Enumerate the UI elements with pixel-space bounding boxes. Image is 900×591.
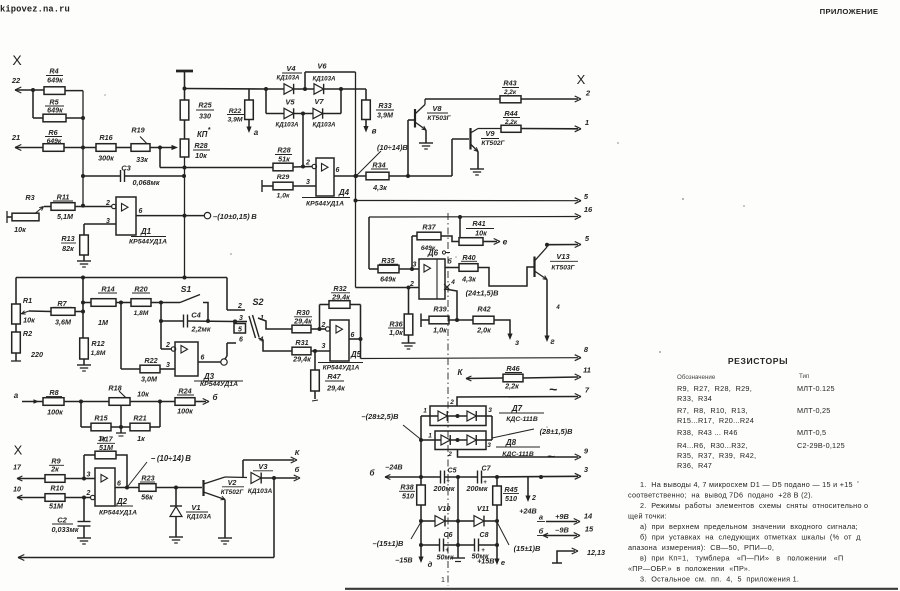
resistor R45 bbox=[493, 477, 519, 505]
wire R14 node down to R22 bbox=[120, 303, 122, 370]
wire -24В rail arrow 3 bbox=[385, 465, 589, 479]
svg-text:510: 510 bbox=[402, 492, 414, 501]
resistor R2 bbox=[11, 324, 43, 361]
wire R7/R14 junction bus bbox=[81, 278, 85, 339]
diode assembly D8 КДС-111В bbox=[419, 416, 540, 458]
svg-text:2,2к: 2,2к bbox=[504, 382, 519, 391]
wire R15/R21 mid to R18 + ground bbox=[116, 406, 126, 437]
svg-text:R9, R27, R28, R29,: R9, R27, R28, R29, bbox=[677, 384, 752, 393]
svg-text:КР544УД1А: КР544УД1А bbox=[99, 510, 137, 517]
svg-text:2,2мк: 2,2мк bbox=[191, 325, 211, 334]
svg-text:КР544УД1А: КР544УД1А bbox=[200, 381, 238, 388]
ground under R36 bbox=[402, 335, 416, 349]
resistor R31 bbox=[292, 338, 330, 364]
resistor R34 bbox=[366, 161, 452, 193]
svg-text:649к: 649к bbox=[47, 76, 63, 85]
svg-text:КР544УД1А: КР544УД1А bbox=[129, 239, 167, 246]
svg-text:R3: R3 bbox=[25, 193, 34, 202]
net line arrow 5 bbox=[356, 192, 589, 204]
resistor R13 bbox=[61, 234, 88, 255]
svg-text:е: е bbox=[501, 558, 505, 567]
svg-text:(10÷14)В: (10÷14)В bbox=[377, 143, 408, 152]
svg-text:3: 3 bbox=[584, 465, 589, 474]
svg-text:29,4к: 29,4к bbox=[293, 317, 312, 326]
diode V1 КД103А bbox=[170, 488, 212, 538]
svg-text:Д3: Д3 bbox=[203, 372, 215, 381]
svg-text:а) при верхнем предельном: а) при верхнем предельном значении входн… bbox=[640, 522, 858, 531]
wire D2 output bbox=[115, 486, 139, 490]
svg-text:3,9М: 3,9М bbox=[377, 111, 394, 120]
svg-text:Д1: Д1 bbox=[140, 227, 152, 236]
svg-text:R12: R12 bbox=[91, 339, 104, 348]
label -(15±1)В bbox=[373, 522, 421, 548]
svg-text:R44: R44 bbox=[504, 109, 517, 118]
wire -15В output bbox=[418, 519, 423, 563]
svg-text:«ПР—ОБР.» в положении «ПР».: «ПР—ОБР.» в положении «ПР». bbox=[628, 564, 750, 573]
label +15В е bbox=[477, 557, 505, 568]
capacitor C2 bbox=[52, 498, 91, 539]
svg-text:КТ502Г: КТ502Г bbox=[221, 489, 245, 496]
svg-text:МЛТ-0.125: МЛТ-0.125 bbox=[797, 384, 835, 393]
svg-text:S2: S2 bbox=[252, 297, 263, 307]
svg-text:C2: C2 bbox=[57, 516, 67, 525]
svg-text:V7: V7 bbox=[314, 97, 324, 106]
power rail symbol bbox=[176, 71, 193, 100]
op-amp D5 bbox=[321, 320, 361, 361]
svg-text:R31: R31 bbox=[295, 338, 308, 347]
potentiometer R1 bbox=[12, 278, 35, 325]
svg-text:ПРИЛОЖЕНИЕ: ПРИЛОЖЕНИЕ bbox=[820, 7, 879, 16]
svg-text:R38, R43 ... R46: R38, R43 ... R46 bbox=[677, 428, 738, 437]
capacitor C6 bbox=[421, 532, 458, 562]
resistor R38 bbox=[399, 483, 425, 506]
svg-text:10к: 10к bbox=[137, 390, 149, 399]
svg-text:щей точки:: щей точки: bbox=[628, 512, 667, 521]
resistor R32 bbox=[320, 284, 363, 359]
svg-text:R25: R25 bbox=[198, 101, 212, 110]
svg-text:50мк: 50мк bbox=[437, 553, 454, 562]
svg-text:КД103А: КД103А bbox=[187, 514, 212, 521]
svg-text:+9В: +9В bbox=[555, 512, 569, 521]
svg-text:МЛТ-0,5: МЛТ-0,5 bbox=[797, 428, 826, 437]
resistor R22 bbox=[227, 89, 253, 124]
svg-text:R6: R6 bbox=[48, 128, 58, 137]
svg-text:6: 6 bbox=[139, 208, 143, 215]
wire diode mid to D4 pin2 bbox=[302, 114, 304, 167]
resistor R21 bbox=[130, 402, 160, 444]
wire rail to R28(51k) bbox=[160, 148, 273, 168]
resistor R17 bbox=[84, 435, 127, 488]
svg-text:R28: R28 bbox=[194, 141, 207, 150]
trimmer R18 bbox=[108, 384, 175, 406]
svg-text:X: X bbox=[577, 72, 586, 87]
svg-text:51к: 51к bbox=[278, 155, 290, 164]
resistor R10 bbox=[45, 484, 91, 511]
label D3 КР544УД1А bbox=[194, 372, 243, 388]
resistor R40 bbox=[445, 253, 534, 286]
svg-text:V10: V10 bbox=[438, 504, 451, 513]
page number bbox=[441, 577, 445, 584]
svg-text:Тип: Тип bbox=[799, 373, 809, 380]
svg-text:б) при уставках на следующ: б) при уставках на следующих отметках шк… bbox=[640, 533, 861, 542]
wire right rectifier column bbox=[495, 505, 499, 562]
svg-text:S1: S1 bbox=[181, 284, 192, 294]
svg-text:100к: 100к bbox=[177, 407, 193, 416]
svg-text:~: ~ bbox=[547, 448, 555, 464]
diode assembly D7 КДС-111В bbox=[421, 399, 544, 426]
svg-text:V9: V9 bbox=[485, 129, 495, 138]
svg-text:510: 510 bbox=[505, 494, 517, 503]
transistor V2 КТ502Г bbox=[204, 477, 248, 538]
transistor V8 КТ503Г bbox=[408, 99, 452, 176]
terminal arrow 17 bbox=[13, 465, 45, 482]
resistor R4 bbox=[44, 67, 65, 95]
wire V3 node down bbox=[273, 478, 275, 558]
resistor R24 bbox=[175, 387, 219, 416]
svg-text:X: X bbox=[14, 443, 23, 458]
switch S1 bbox=[161, 284, 208, 321]
terminal arrow 1 bbox=[521, 118, 589, 132]
svg-text:R21: R21 bbox=[133, 414, 146, 423]
wire R19 wiper arrow to R28 bbox=[150, 145, 178, 150]
svg-text:в) при Кп=1, тумблера «П: в) при Кп=1, тумблера «П—ПИ» в положении… bbox=[640, 554, 843, 563]
svg-text:–(10±0,15) В: –(10±0,15) В bbox=[213, 212, 257, 221]
wire R6-R16 bbox=[64, 147, 96, 149]
svg-text:R45: R45 bbox=[504, 485, 518, 494]
svg-text:R37: R37 bbox=[422, 223, 436, 232]
svg-text:КР544УД1А: КР544УД1А bbox=[306, 201, 344, 208]
svg-text:–(15±1)В: –(15±1)В bbox=[373, 539, 404, 548]
trimmer R41 bbox=[459, 217, 494, 245]
svg-text:0,068мк: 0,068мк bbox=[133, 178, 160, 187]
svg-text:Д6: Д6 bbox=[427, 249, 439, 258]
diode V6 bbox=[312, 62, 343, 95]
svg-text:–9В: –9В bbox=[555, 526, 569, 535]
screen boundary dash-dot line bbox=[447, 213, 449, 586]
svg-text:4,3к: 4,3к bbox=[461, 275, 476, 284]
resistor R3 bbox=[7, 193, 44, 234]
ground under R12 bbox=[77, 365, 91, 371]
svg-text:1: 1 bbox=[441, 577, 445, 584]
capacitor C5 bbox=[433, 468, 457, 494]
svg-text:1: 1 bbox=[585, 118, 589, 127]
svg-text:КТ503Г: КТ503Г bbox=[551, 265, 575, 272]
arrow -9В 15 bbox=[537, 525, 594, 539]
resistor R35 bbox=[369, 256, 419, 284]
svg-text:V1: V1 bbox=[191, 503, 200, 512]
svg-text:2,2к: 2,2к bbox=[503, 89, 517, 96]
wire left bus vertical bbox=[65, 91, 85, 208]
svg-text:R14: R14 bbox=[101, 285, 114, 294]
main lower rail bbox=[16, 276, 227, 280]
terminal group X (top right) bbox=[577, 72, 586, 87]
svg-text:2: 2 bbox=[585, 89, 591, 98]
wire D6 pin2 rail bbox=[356, 286, 420, 290]
svg-text:330: 330 bbox=[199, 112, 211, 121]
svg-text:29,4к: 29,4к bbox=[331, 293, 350, 302]
svg-text:R10: R10 bbox=[50, 484, 63, 493]
svg-text:33к: 33к bbox=[136, 155, 148, 164]
arrow a below R22 bbox=[246, 120, 258, 138]
resistor R39 bbox=[421, 305, 473, 335]
label D1 КР544УД1А bbox=[129, 227, 167, 246]
svg-text:29,4к: 29,4к bbox=[326, 384, 345, 393]
ground V2 emitter bbox=[218, 538, 232, 544]
svg-text:1: 1 bbox=[428, 433, 432, 440]
svg-text:15: 15 bbox=[585, 525, 594, 534]
svg-text:б: б bbox=[370, 469, 376, 478]
svg-text:КД103А: КД103А bbox=[312, 76, 336, 83]
svg-text:Обозначение: Обозначение bbox=[677, 374, 716, 381]
svg-text:–15В: –15В bbox=[395, 556, 412, 565]
svg-text:9: 9 bbox=[584, 447, 589, 456]
svg-text:17: 17 bbox=[13, 465, 22, 472]
svg-text:200мк: 200мк bbox=[466, 484, 488, 493]
svg-text:–(28±2,5)В: –(28±2,5)В bbox=[362, 412, 400, 421]
svg-text:0,033мк: 0,033мк bbox=[52, 525, 79, 534]
svg-text:R22: R22 bbox=[229, 108, 242, 115]
wire diode node vertical bbox=[265, 89, 267, 114]
label D4 КР544УД1А bbox=[302, 188, 350, 208]
resistor R11 bbox=[44, 193, 112, 222]
wire top rail to diode node bbox=[185, 87, 269, 91]
notes text block bbox=[628, 480, 868, 584]
svg-text:22: 22 bbox=[11, 76, 21, 85]
svg-text:2: 2 bbox=[447, 451, 452, 458]
output terminal -(10±0,15)В bbox=[204, 212, 257, 221]
svg-text:5: 5 bbox=[584, 192, 589, 201]
svg-text:R46: R46 bbox=[506, 364, 520, 373]
wire D6 pin4 down bbox=[445, 289, 459, 322]
resistor R6 bbox=[43, 128, 64, 151]
svg-text:б: б bbox=[295, 465, 300, 474]
svg-text:649к: 649к bbox=[380, 275, 396, 284]
wire D4 output bbox=[334, 174, 366, 178]
net line arrow 8 bbox=[361, 345, 589, 361]
label C3 bbox=[121, 164, 131, 173]
ground under R13 bbox=[77, 255, 91, 267]
svg-text:б: б bbox=[213, 393, 219, 402]
svg-text:R7: R7 bbox=[57, 299, 67, 308]
resistor R9 bbox=[45, 457, 86, 483]
svg-text:R7, R8, R10, R13,: R7, R8, R10, R13, bbox=[677, 406, 748, 415]
resistor R20 bbox=[131, 285, 163, 318]
svg-text:4: 4 bbox=[450, 279, 455, 286]
label D5 КР544УД1А bbox=[318, 350, 363, 372]
svg-text:6: 6 bbox=[351, 332, 355, 339]
svg-text:Д7: Д7 bbox=[511, 404, 523, 413]
diode V5 bbox=[266, 98, 313, 129]
header ПРИЛОЖЕНИЕ bbox=[820, 7, 879, 16]
svg-text:R15: R15 bbox=[94, 414, 108, 423]
trimmer R19 bbox=[131, 126, 150, 165]
label -15В д bbox=[395, 556, 432, 570]
svg-text:29,4к: 29,4к bbox=[292, 355, 311, 364]
wire R28 bottom vertical bus bbox=[183, 157, 187, 280]
svg-text:2: 2 bbox=[531, 495, 536, 502]
resistor R44 bbox=[501, 109, 521, 132]
capacitor C4 bbox=[159, 303, 237, 350]
svg-text:1,8М: 1,8М bbox=[134, 310, 149, 317]
scan bottom edge line bbox=[345, 588, 898, 590]
transistor V9 КТ502Г bbox=[452, 128, 506, 176]
svg-text:2: 2 bbox=[105, 200, 110, 207]
svg-text:100к: 100к bbox=[47, 408, 63, 417]
svg-text:+24В: +24В bbox=[519, 507, 536, 516]
svg-text:R38: R38 bbox=[400, 483, 413, 492]
resistor R23 bbox=[139, 474, 202, 502]
svg-text:а: а bbox=[539, 513, 543, 522]
svg-text:1. На выводы 4, 7 микросхем D: 1. На выводы 4, 7 микросхем D1 — D5 пода… bbox=[640, 480, 853, 489]
svg-text:КД103А: КД103А bbox=[312, 122, 336, 129]
svg-text:в: в bbox=[372, 127, 377, 136]
resistor R43 bbox=[425, 79, 521, 103]
pin label 4 bbox=[555, 305, 560, 311]
arrow в below R33 bbox=[363, 120, 376, 136]
svg-text:апазона измерения): СВ—50,: апазона измерения): СВ—50, РПИ—0, bbox=[628, 543, 774, 552]
svg-text:V8: V8 bbox=[432, 104, 442, 113]
wire 22-R5 bbox=[31, 88, 35, 118]
svg-text:КР544УД1А: КР544УД1А bbox=[323, 365, 360, 372]
svg-text:г: г bbox=[550, 337, 555, 346]
svg-text:1: 1 bbox=[423, 408, 427, 415]
svg-text:а: а bbox=[254, 128, 259, 137]
label КП bbox=[197, 127, 211, 139]
svg-text:2: 2 bbox=[165, 342, 170, 349]
svg-text:5,1М: 5,1М bbox=[57, 212, 74, 221]
svg-text:1,8М: 1,8М bbox=[91, 350, 106, 357]
svg-text:РЕЗИСТОРЫ: РЕЗИСТОРЫ bbox=[728, 356, 788, 366]
net line arrow 9 (~) bbox=[447, 447, 589, 465]
capacitor C8 bbox=[458, 532, 497, 561]
label D6 bbox=[427, 249, 450, 258]
svg-text:*: * bbox=[208, 127, 211, 134]
svg-text:82к: 82к bbox=[62, 244, 74, 253]
label -(10÷14)В leader bbox=[127, 454, 191, 488]
svg-text:2. Режимы работы элементов: 2. Режимы работы элементов схемы сняты о… bbox=[640, 501, 868, 510]
svg-text:2: 2 bbox=[449, 399, 454, 406]
transistor V13 КТ503Г bbox=[535, 245, 579, 338]
svg-text:R40: R40 bbox=[462, 253, 475, 262]
svg-text:2: 2 bbox=[321, 322, 326, 329]
svg-text:10к: 10к bbox=[14, 225, 26, 234]
svg-text:8: 8 bbox=[584, 345, 589, 354]
common terminal arrow 12,13 bbox=[552, 548, 605, 563]
svg-text:10к: 10к bbox=[195, 151, 207, 160]
svg-text:12,13: 12,13 bbox=[587, 548, 605, 557]
svg-text:R22: R22 bbox=[144, 356, 157, 365]
svg-text:R35, R37, R39, R42,: R35, R37, R39, R42, bbox=[677, 451, 756, 460]
svg-text:V6: V6 bbox=[317, 62, 327, 71]
svg-text:R29: R29 bbox=[277, 174, 290, 181]
svg-text:2: 2 bbox=[237, 303, 242, 310]
diode V3 КД103А bbox=[248, 462, 300, 495]
resistor R8 bbox=[14, 388, 109, 417]
svg-text:X: X bbox=[12, 52, 22, 68]
resistor R16 bbox=[96, 133, 116, 163]
svg-text:а: а bbox=[14, 391, 19, 400]
svg-text:3: 3 bbox=[87, 472, 91, 479]
diode V7 bbox=[312, 97, 341, 129]
svg-text:R19: R19 bbox=[131, 126, 144, 135]
wire D1 output bbox=[136, 215, 204, 217]
svg-text:R36, R47: R36, R47 bbox=[677, 461, 712, 470]
svg-text:R23: R23 bbox=[141, 474, 154, 483]
op-amp D1 bbox=[105, 197, 143, 235]
svg-text:1к: 1к bbox=[137, 434, 145, 443]
svg-text:V13: V13 bbox=[556, 252, 570, 261]
svg-text:51М: 51М bbox=[99, 443, 114, 452]
resistor R28 51к bbox=[273, 146, 313, 171]
svg-text:Д2: Д2 bbox=[116, 497, 128, 506]
svg-text:–24В: –24В bbox=[385, 463, 402, 472]
op-amp D2 bbox=[84, 468, 121, 506]
svg-text:Д8: Д8 bbox=[505, 438, 517, 447]
arrow +9В 14 bbox=[537, 512, 593, 525]
svg-text:56к: 56к bbox=[141, 493, 153, 502]
svg-text:5: 5 bbox=[585, 234, 590, 243]
resistor R7 bbox=[29, 299, 83, 327]
arrow +24В tap bbox=[519, 477, 536, 516]
svg-text:КТ503Г: КТ503Г bbox=[427, 115, 451, 122]
svg-text:6: 6 bbox=[117, 481, 121, 488]
svg-text:10: 10 bbox=[13, 487, 21, 494]
svg-text:1М: 1М bbox=[98, 318, 109, 327]
svg-text:21: 21 bbox=[11, 133, 20, 142]
svg-text:R20: R20 bbox=[134, 285, 147, 294]
wire R16-R19 bbox=[116, 147, 131, 149]
ground V9 emitter bbox=[470, 169, 484, 175]
svg-text:V11: V11 bbox=[477, 504, 489, 513]
svg-text:11: 11 bbox=[583, 366, 591, 375]
svg-text:300к: 300к bbox=[98, 154, 114, 163]
arrow з after R42 bbox=[507, 334, 519, 348]
wire left rectifier column bbox=[420, 416, 422, 545]
terminal group X (bottom left) bbox=[14, 443, 23, 458]
terminal arrow 10 bbox=[13, 487, 45, 501]
capacitor C7 bbox=[466, 466, 492, 494]
resistor R46 bbox=[458, 364, 591, 391]
op-amp D4 bbox=[305, 158, 340, 196]
op-amp D6 bbox=[409, 258, 455, 300]
diode V4 bbox=[266, 64, 314, 94]
svg-text:R11: R11 bbox=[57, 193, 70, 202]
svg-text:(24±1,5)В: (24±1,5)В bbox=[466, 289, 499, 298]
svg-text:3,9М: 3,9М bbox=[227, 117, 242, 124]
svg-text:4: 4 bbox=[555, 305, 560, 311]
svg-text:200мк: 200мк bbox=[433, 484, 455, 493]
svg-text:з: з bbox=[515, 338, 519, 347]
label б -24В bbox=[370, 463, 403, 480]
svg-text:R39: R39 bbox=[433, 305, 446, 314]
resistor R25 bbox=[180, 87, 214, 121]
arrow г V13 emitter bbox=[544, 336, 555, 347]
svg-text:R1: R1 bbox=[23, 296, 32, 305]
terminal arrow 22 bbox=[11, 76, 44, 93]
svg-text:51М: 51М bbox=[49, 502, 64, 511]
resistor R12 bbox=[80, 338, 106, 365]
wire centre column + common bar bbox=[451, 477, 465, 562]
resistor R5 bbox=[33, 98, 83, 122]
arrow e from R41 bbox=[483, 237, 508, 247]
capacitor C3 bbox=[83, 170, 186, 187]
svg-text:C8: C8 bbox=[480, 532, 489, 539]
resistor R29 bbox=[262, 174, 316, 200]
svg-text:V4: V4 bbox=[286, 64, 296, 73]
resistor R37 bbox=[412, 223, 459, 270]
svg-text:R35: R35 bbox=[381, 256, 395, 265]
net line arrow 16 bbox=[369, 205, 593, 269]
